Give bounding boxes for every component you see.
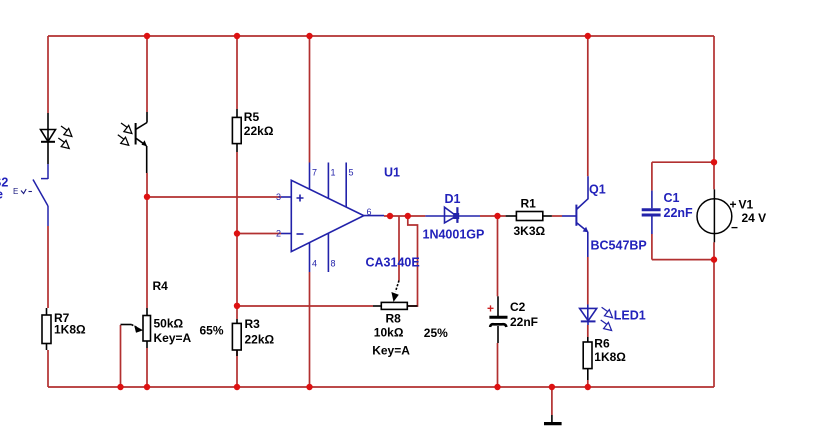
wire C2 column bottom — [497, 343, 499, 387]
svg-text:R6: R6 — [594, 337, 610, 351]
resistor R1 — [506, 212, 552, 221]
junction C1 bottom / V1 minus — [711, 256, 717, 262]
junction D1 cathode / R1 / C2 — [494, 213, 500, 219]
junction top rail / U1 pin 7 — [306, 33, 312, 39]
wire top rail — [48, 35, 714, 37]
svg-text:CA3140E: CA3140E — [366, 256, 420, 270]
phototransistor emitter arrowhead — [142, 140, 147, 146]
resistor R7 — [42, 308, 51, 350]
wire D1 to R1 node — [480, 215, 506, 217]
svg-text:R4: R4 — [153, 279, 169, 293]
svg-text:3K3Ω: 3K3Ω — [514, 224, 546, 238]
svg-text:1N4001GP: 1N4001GP — [423, 228, 485, 242]
junction bottom rail / R6 bottom — [585, 384, 591, 390]
potentiometer R4 — [121, 308, 151, 348]
svg-text:3: 3 — [276, 192, 281, 202]
wire R4 bottom to rail — [146, 348, 148, 387]
wire left edge bottom segment (below R7) — [47, 350, 49, 387]
junction bottom rail / R4 bottom — [144, 384, 150, 390]
svg-text:R8: R8 — [386, 312, 402, 326]
junction U1 output right — [405, 213, 411, 219]
wire R8 wiper riser — [398, 216, 400, 281]
wire ground drop — [551, 387, 553, 415]
svg-text:22nF: 22nF — [664, 206, 694, 220]
junction bottom rail / R4 wiper — [117, 384, 123, 390]
svg-text:22nF: 22nF — [510, 315, 538, 329]
svg-text:BC547BP: BC547BP — [591, 239, 647, 253]
wire R6 bottom to rail — [587, 380, 589, 387]
potentiometer R8 — [373, 281, 418, 310]
svg-text:C1: C1 — [664, 191, 680, 205]
svg-text:+: + — [487, 302, 494, 316]
svg-text:7: 7 — [312, 168, 317, 178]
svg-text:22kΩ: 22kΩ — [244, 124, 274, 138]
wire C1 left leg bottom — [651, 234, 653, 260]
node B: R5 bottom / U1 pin 2 — [234, 230, 240, 236]
resistor R6 — [583, 337, 592, 380]
wire R1 right to Q1 base — [552, 215, 562, 217]
junction bottom rail / U1 pin 4 — [306, 384, 312, 390]
svg-text:10kΩ: 10kΩ — [374, 326, 404, 340]
wire R4 wiper drop to bottom rail — [120, 325, 122, 387]
svg-text:R5: R5 — [244, 110, 260, 124]
junction top rail / Q1 collector — [585, 33, 591, 39]
svg-text:U1: U1 — [384, 166, 400, 180]
junction bottom rail / ground — [549, 384, 555, 390]
wire LED1 to R6 — [587, 325, 589, 337]
svg-text:4: 4 — [312, 259, 317, 269]
wire op-amp pin4 to bottom rail — [309, 272, 311, 387]
svg-text:e: e — [0, 188, 3, 202]
capacitor C2 — [489, 296, 507, 343]
svg-text:2: 2 — [276, 229, 281, 239]
junction top rail / R5 — [234, 33, 240, 39]
op-amp U1 — [281, 163, 384, 273]
svg-text:Q1: Q1 — [589, 183, 606, 197]
switch S2 — [33, 164, 48, 226]
svg-text:25%: 25% — [424, 326, 448, 340]
junction C1 top / V1 plus — [711, 159, 717, 165]
svg-text:C2: C2 — [510, 300, 526, 314]
wire pin2 node to op-amp pin2 — [237, 233, 281, 235]
wire Q1 collector to top rail — [587, 36, 589, 176]
wire R5 bottom down through pin2 node to R3 — [236, 152, 238, 319]
svg-text:Key=A: Key=A — [154, 331, 192, 345]
plus sign — [297, 195, 304, 202]
wire R3 bottom to rail — [236, 350, 238, 387]
svg-text:D1: D1 — [445, 192, 461, 206]
wire C2 column top — [497, 216, 499, 296]
svg-text:E: E — [13, 187, 18, 196]
svg-text:24 V: 24 V — [742, 211, 767, 225]
wire bottom rail — [48, 386, 714, 388]
wire R3 node to R8 left — [237, 305, 373, 307]
capacitor C1 — [642, 191, 661, 234]
svg-text:50kΩ: 50kΩ — [154, 317, 184, 331]
wire right edge top — [713, 36, 715, 189]
infrared LED (left, black) — [41, 113, 56, 164]
junction bottom rail / R3 bottom — [234, 384, 240, 390]
key squiggle — [21, 189, 26, 194]
wire C1 left leg top — [651, 162, 653, 190]
svg-text:Key=A: Key=A — [372, 344, 410, 358]
R4 wiper arrowhead — [134, 325, 143, 332]
transistor Q1 — [562, 176, 588, 257]
wire C1 loop bottom — [652, 259, 714, 261]
wire phototransistor emitter down to node — [146, 173, 148, 308]
minus sign — [297, 233, 304, 235]
LED1 — [580, 305, 597, 326]
wire node A to op-amp pin3 — [147, 196, 281, 198]
svg-text:1: 1 — [331, 168, 336, 178]
junction U1 output left — [387, 213, 393, 219]
svg-text:65%: 65% — [200, 324, 224, 338]
svg-text:1K8Ω: 1K8Ω — [54, 323, 86, 337]
R8 wiper arrowhead — [391, 292, 398, 302]
svg-text:22kΩ: 22kΩ — [245, 333, 275, 347]
wire op-amp pin7 to top rail — [309, 36, 311, 163]
wire op-amp output — [384, 215, 425, 217]
wire right edge bottom — [713, 242, 715, 387]
junction top rail / phototransistor collector — [144, 33, 150, 39]
svg-text:1K8Ω: 1K8Ω — [594, 350, 626, 364]
diode D1 — [425, 207, 480, 223]
svg-text:5: 5 — [349, 168, 354, 178]
svg-text:−: − — [731, 221, 738, 235]
wire left edge top segment — [47, 36, 49, 113]
svg-text:V1: V1 — [739, 198, 754, 212]
wire R5 top to rail — [236, 36, 238, 109]
svg-text:R3: R3 — [245, 317, 261, 331]
svg-text:6: 6 — [367, 207, 372, 217]
wire C1 loop top — [652, 161, 714, 163]
wire output jog down to R8 right — [407, 216, 417, 306]
wire Q1 emitter to LED1 — [587, 257, 589, 305]
phototransistor — [136, 112, 147, 173]
svg-text:R1: R1 — [521, 197, 537, 211]
svg-text:LED1: LED1 — [614, 309, 646, 323]
wire phototransistor collector to top rail — [146, 36, 148, 112]
Q1 emitter arrowhead — [583, 227, 589, 233]
junction R3 top / R8 left — [234, 303, 240, 309]
voltage source V1 — [697, 189, 732, 242]
node A: phototransistor emitter / U1 pin 3 — [144, 194, 150, 200]
svg-text:8: 8 — [331, 259, 336, 269]
resistor R3 — [232, 319, 241, 356]
svg-text:+: + — [730, 198, 737, 212]
resistor R5 — [232, 109, 241, 152]
ground — [544, 415, 562, 424]
wire left edge mid segment (below switch) — [47, 226, 49, 308]
junction bottom rail / C2 bottom — [494, 384, 500, 390]
